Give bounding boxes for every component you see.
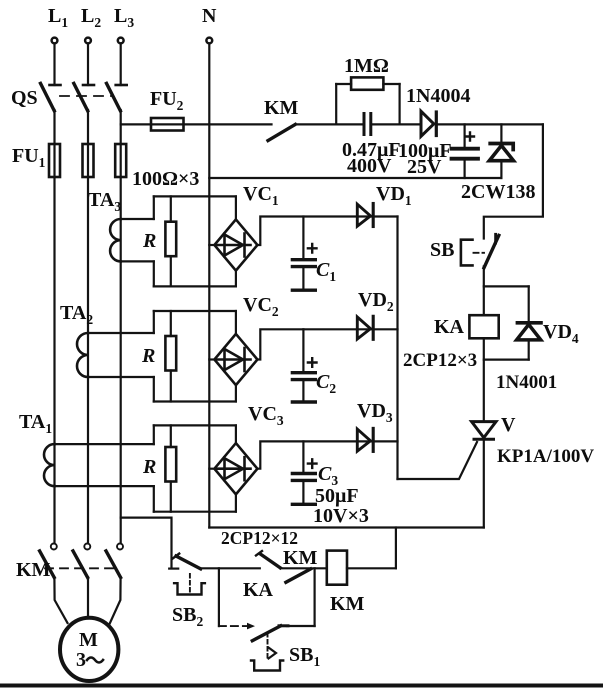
svg-text:3: 3	[76, 649, 86, 671]
svg-text:KM: KM	[16, 559, 51, 581]
wire motor leads	[54, 577, 67, 623]
wire module1 bottom rail	[154, 285, 236, 287]
wire module3 left verticals	[153, 425, 155, 444]
wire module1 left verticals	[153, 196, 155, 219]
svg-text:KM: KM	[283, 547, 318, 569]
svg-text:KA: KA	[243, 579, 274, 601]
QS linkage dashed	[60, 95, 112, 97]
svg-text:R: R	[142, 230, 156, 252]
capacitor C1	[292, 217, 336, 291]
diode VD2	[357, 289, 394, 339]
contact KM aux (NO self-hold)	[256, 547, 327, 569]
svg-text:QS: QS	[11, 87, 38, 109]
page bottom rule	[0, 684, 603, 688]
wire module2 left verticals	[153, 311, 155, 333]
wire VD cathode bus	[396, 217, 398, 480]
contact KM (NO) in top rail	[264, 97, 299, 141]
wire right drop from top rail	[484, 124, 543, 238]
node L1 terminal	[48, 5, 68, 43]
fuse FU1 pole 2	[83, 144, 94, 177]
resistor R row3	[142, 425, 176, 511]
svg-text:KM: KM	[264, 97, 299, 119]
fuse FU1 pole 1	[49, 144, 60, 177]
svg-text:400V: 400V	[347, 155, 392, 177]
svg-text:25V: 25V	[407, 156, 442, 178]
wire module2 top rail	[154, 310, 236, 312]
node KA top branch	[484, 285, 529, 287]
pushbutton SB (NC)	[430, 234, 499, 267]
svg-text:1N4004: 1N4004	[406, 85, 470, 107]
svg-text:50μF: 50μF	[315, 485, 359, 507]
wire bridge3 DC out	[257, 441, 397, 468]
transformer TA1 secondary coil	[44, 444, 154, 486]
svg-text:M: M	[79, 629, 98, 651]
wire SB to KA node	[483, 266, 485, 315]
relay coil KM	[327, 551, 396, 615]
motor M 3~	[60, 618, 118, 681]
diode VD4 1N4001	[517, 321, 579, 360]
transformer TA2 secondary coil	[77, 333, 154, 377]
capacitor C2	[292, 329, 336, 402]
wire bridge2 DC out	[257, 329, 397, 359]
diode VD3	[357, 400, 393, 451]
contact KA (NO)	[243, 569, 311, 601]
svg-text:1N4001: 1N4001	[496, 372, 557, 393]
wire L3 phase line	[120, 110, 122, 543]
switch QS pole 1	[41, 44, 61, 111]
capacitor C3	[292, 441, 338, 504]
pushbutton SB1 (NC stop)	[251, 626, 320, 671]
svg-text:V: V	[501, 414, 516, 436]
KM main linkage dashed	[45, 567, 116, 569]
thyristor V KP1A/100V	[472, 414, 595, 528]
wire bridge1 DC out	[257, 217, 397, 246]
contact KM main pole 2	[73, 544, 90, 578]
svg-text:KA: KA	[434, 316, 465, 338]
resistor R row2	[141, 311, 176, 402]
wire SB2 out to KM aux	[201, 567, 260, 569]
wire module3 bottom rail	[154, 511, 236, 513]
svg-text:SB: SB	[430, 239, 454, 261]
switch QS pole 3	[107, 44, 127, 111]
transformer TA3 secondary coil	[110, 219, 154, 261]
node N terminal	[202, 5, 217, 43]
svg-text:1MΩ: 1MΩ	[344, 55, 389, 77]
capacitor 0.47uF 400V	[342, 114, 420, 178]
svg-text:2CP12×3: 2CP12×3	[403, 350, 477, 371]
zener diode 2CW138	[461, 124, 535, 203]
relay coil KA	[434, 315, 499, 338]
switch QS pole 2	[74, 44, 94, 111]
wire module2 bottom rail	[154, 400, 236, 402]
wire top rail from L3 to 0.47uF	[121, 123, 272, 125]
pushbutton SB2 (NO start)	[169, 554, 205, 629]
diode VD1	[357, 183, 412, 227]
svg-text:10V×3: 10V×3	[313, 505, 369, 527]
wire thyristor gate	[398, 442, 478, 479]
rectifier bridge VC1	[209, 183, 279, 286]
wire L1 phase line	[53, 110, 55, 543]
wire L3 tap to SB2	[121, 518, 172, 567]
node L3 terminal	[114, 5, 134, 43]
contact KM main pole 3	[106, 544, 123, 578]
resistor 1M ohm	[336, 55, 399, 124]
svg-text:KM: KM	[330, 593, 365, 615]
resistor R row1	[142, 196, 176, 286]
svg-text:KP1A/100V: KP1A/100V	[497, 446, 594, 467]
wire KA bottom branch	[483, 338, 485, 421]
contact KM main pole 1	[40, 544, 57, 578]
svg-text:2CW138: 2CW138	[461, 181, 535, 203]
svg-text:N: N	[202, 5, 217, 27]
fuse FU1 pole 3	[115, 144, 126, 177]
wire L2 phase line	[87, 110, 89, 543]
wire rail2 N return	[209, 177, 501, 179]
svg-text:R: R	[142, 456, 156, 478]
wire junction drop to SB1 dashed link	[218, 568, 220, 626]
wire bottom common rail	[209, 526, 484, 528]
capacitor 100uF 25V	[398, 124, 478, 178]
svg-text:100Ω×3: 100Ω×3	[132, 168, 199, 190]
svg-text:R: R	[141, 345, 155, 367]
rectifier bridge VC2	[209, 294, 279, 402]
wire module1 top rail	[154, 195, 236, 197]
wire KM coil return riser	[395, 528, 397, 569]
wire module3 top rail	[154, 424, 236, 426]
diode 1N4004	[406, 85, 543, 136]
fuse FU2	[150, 88, 184, 131]
node L2 terminal	[81, 5, 101, 43]
svg-text:2CP12×12: 2CP12×12	[221, 528, 298, 548]
wire junction to SB1 right	[314, 568, 316, 626]
rectifier bridge VC3	[209, 403, 284, 512]
wire N common bus	[208, 44, 210, 528]
